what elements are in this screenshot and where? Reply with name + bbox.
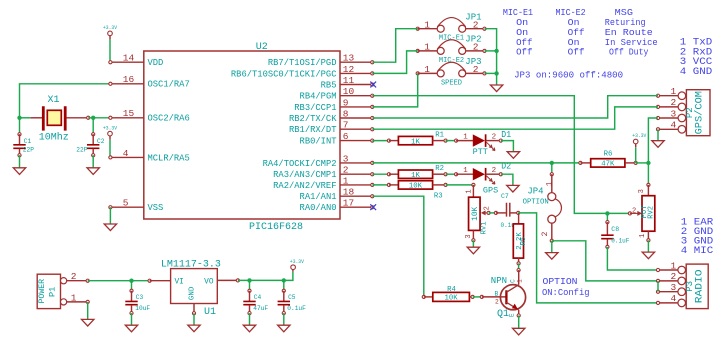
svg-text:RA1/AN1: RA1/AN1 [300, 192, 337, 202]
svg-text:E: E [508, 313, 515, 317]
svg-text:3: 3 [465, 234, 473, 238]
svg-text:1: 1 [670, 260, 676, 271]
svg-text:1K: 1K [411, 172, 420, 180]
svg-text:JP4: JP4 [527, 185, 543, 196]
svg-text:Off: Off [516, 48, 532, 58]
svg-text:9: 9 [343, 97, 349, 108]
svg-text:R6: R6 [604, 151, 613, 159]
svg-text:3: 3 [638, 189, 646, 193]
svg-text:R3: R3 [434, 192, 443, 200]
svg-text:RV1: RV1 [481, 221, 489, 235]
svg-text:B: B [495, 291, 499, 298]
svg-text:RB1/RX/DT: RB1/RX/DT [289, 125, 337, 135]
svg-text:4: 4 [123, 148, 129, 159]
svg-text:4 MIC: 4 MIC [681, 246, 713, 257]
svg-text:15: 15 [123, 108, 135, 119]
svg-text:Returing: Returing [605, 18, 646, 28]
svg-text:RB0/INT: RB0/INT [300, 137, 337, 147]
svg-text:1: 1 [639, 234, 647, 238]
svg-text:OPTION: OPTION [523, 198, 549, 206]
svg-text:MIC-E2: MIC-E2 [556, 8, 586, 18]
svg-text:2: 2 [495, 299, 499, 306]
svg-text:RB7/T1OSI/PGD: RB7/T1OSI/PGD [268, 58, 337, 68]
svg-text:RB2/TX/CK: RB2/TX/CK [289, 114, 337, 124]
svg-text:C7: C7 [501, 193, 509, 200]
svg-text:47K: 47K [601, 161, 615, 169]
svg-text:C8: C8 [611, 226, 619, 233]
svg-text:RB5: RB5 [321, 80, 337, 90]
svg-text:GPS/COM: GPS/COM [694, 91, 706, 134]
svg-text:4: 4 [670, 120, 676, 131]
svg-text:MIC-E1: MIC-E1 [439, 35, 464, 43]
svg-text:C5: C5 [288, 294, 296, 301]
svg-text:47uF: 47uF [253, 305, 268, 312]
svg-text:11: 11 [343, 75, 355, 86]
svg-text:1: 1 [670, 86, 676, 97]
svg-text:P2: P2 [685, 107, 695, 118]
svg-text:SPEED: SPEED [441, 79, 462, 87]
svg-text:2: 2 [484, 206, 492, 210]
svg-text:0.1uF: 0.1uF [287, 305, 306, 312]
svg-text:C: C [509, 279, 516, 283]
svg-text:Q1: Q1 [497, 309, 509, 320]
svg-text:OSC2/RA6: OSC2/RA6 [148, 114, 190, 124]
svg-text:MCLR/RA5: MCLR/RA5 [148, 153, 190, 163]
svg-text:4 GND: 4 GND [680, 67, 712, 78]
svg-text:1: 1 [517, 279, 524, 283]
svg-text:OPTION: OPTION [543, 276, 578, 287]
svg-text:P3: P3 [685, 281, 695, 292]
svg-text:2: 2 [670, 271, 676, 282]
svg-text:18: 18 [343, 187, 355, 198]
svg-text:JP3: JP3 [465, 57, 481, 67]
svg-text:RA2/AN2/VREF: RA2/AN2/VREF [273, 181, 336, 191]
svg-text:C4: C4 [254, 294, 262, 301]
svg-text:RB6/T10SC0/T1CKI/PGC: RB6/T10SC0/T1CKI/PGC [231, 69, 337, 79]
svg-text:MSG: MSG [615, 8, 633, 18]
svg-text:0.1uF: 0.1uF [611, 238, 629, 245]
svg-text:+3.3V: +3.3V [103, 24, 117, 31]
svg-text:RB3/CCP1: RB3/CCP1 [294, 103, 336, 113]
svg-text:On: On [568, 18, 580, 28]
svg-text:VSS: VSS [148, 203, 164, 213]
svg-text:C3: C3 [136, 294, 144, 301]
svg-text:R4: R4 [447, 286, 456, 294]
svg-text:R1: R1 [435, 131, 444, 139]
svg-text:X1: X1 [48, 95, 60, 106]
svg-text:ON:Config: ON:Config [542, 287, 590, 298]
svg-text:NPN: NPN [491, 276, 507, 286]
svg-text:RA3/AN3/CMP1: RA3/AN3/CMP1 [273, 170, 336, 180]
svg-text:VDD: VDD [148, 58, 164, 68]
svg-text:10K: 10K [445, 295, 459, 303]
svg-text:17: 17 [343, 198, 354, 209]
svg-text:2: 2 [71, 271, 77, 282]
svg-text:3: 3 [670, 282, 676, 293]
svg-text:3: 3 [670, 108, 676, 119]
svg-text:1: 1 [424, 19, 430, 30]
svg-text:VI: VI [175, 279, 184, 287]
svg-text:10K: 10K [472, 206, 480, 220]
svg-text:RADIO: RADIO [694, 269, 705, 303]
svg-text:PIC16F628: PIC16F628 [249, 222, 303, 233]
svg-text:1: 1 [343, 175, 349, 186]
svg-text:In Service: In Service [605, 38, 658, 48]
svg-text:JP2: JP2 [465, 35, 481, 45]
svg-text:5: 5 [123, 198, 129, 209]
svg-text:LM1117-3.3: LM1117-3.3 [161, 260, 221, 271]
svg-text:MIC-E1: MIC-E1 [503, 8, 533, 18]
svg-text:Off: Off [568, 48, 585, 58]
svg-text:POWER: POWER [38, 279, 47, 304]
svg-text:R5: R5 [520, 237, 528, 245]
svg-text:4: 4 [670, 293, 676, 304]
svg-text:+3.3V: +3.3V [632, 132, 646, 139]
svg-text:10Mhz: 10Mhz [39, 132, 69, 144]
svg-text:OSC1/RA7: OSC1/RA7 [148, 80, 190, 90]
svg-text:1: 1 [465, 189, 473, 193]
svg-text:RB4/PGM: RB4/PGM [300, 92, 337, 102]
svg-text:Off: Off [568, 28, 585, 38]
svg-text:22P: 22P [76, 146, 87, 153]
svg-text:GPS: GPS [483, 185, 498, 195]
svg-text:10uF: 10uF [135, 305, 150, 312]
svg-text:1: 1 [424, 42, 430, 53]
svg-text:Off: Off [516, 38, 532, 48]
svg-text:1: 1 [463, 167, 468, 175]
svg-text:16: 16 [123, 74, 135, 85]
svg-text:10K: 10K [409, 183, 423, 191]
svg-text:22P: 22P [23, 146, 34, 153]
svg-text:2: 2 [343, 165, 349, 176]
svg-text:U2: U2 [256, 42, 268, 53]
svg-text:1: 1 [545, 181, 554, 186]
svg-text:6: 6 [343, 131, 349, 142]
svg-text:1: 1 [71, 292, 77, 303]
svg-text:JP3 on:9600 off:4800: JP3 on:9600 off:4800 [514, 71, 623, 81]
svg-text:On: On [568, 38, 580, 48]
svg-text:7: 7 [343, 120, 349, 131]
svg-text:12: 12 [343, 64, 355, 75]
svg-text:1: 1 [424, 64, 430, 75]
svg-text:1: 1 [463, 134, 468, 142]
svg-text:3: 3 [343, 153, 349, 164]
svg-text:JP1: JP1 [465, 12, 481, 22]
svg-text:2: 2 [670, 97, 676, 108]
svg-text:C2: C2 [97, 138, 105, 145]
svg-text:RA4/TOCKI/CMP2: RA4/TOCKI/CMP2 [263, 159, 337, 169]
svg-text:+3.3V: +3.3V [103, 124, 117, 131]
svg-text:RA0/AN0: RA0/AN0 [300, 203, 337, 213]
svg-text:RV2: RV2 [648, 206, 656, 219]
svg-text:D1: D1 [501, 130, 511, 140]
svg-text:+3.3V: +3.3V [290, 258, 304, 265]
svg-text:13: 13 [343, 53, 355, 64]
svg-text:10: 10 [343, 86, 355, 97]
svg-text:14: 14 [123, 53, 135, 64]
svg-text:U1: U1 [204, 307, 216, 318]
svg-text:PTT: PTT [473, 147, 488, 157]
svg-text:GND: GND [189, 286, 197, 300]
svg-text:On: On [516, 28, 528, 38]
svg-text:2: 2 [632, 208, 636, 216]
svg-text:1K: 1K [411, 138, 420, 146]
svg-text:2: 2 [541, 231, 550, 236]
svg-text:On: On [516, 18, 528, 28]
svg-text:MIC-E2: MIC-E2 [439, 57, 464, 65]
svg-text:En Route: En Route [605, 28, 653, 38]
svg-text:8: 8 [343, 108, 349, 119]
svg-text:P1: P1 [48, 287, 58, 297]
svg-text:VO: VO [204, 279, 214, 287]
svg-text:C1: C1 [24, 138, 32, 145]
svg-text:R2: R2 [435, 165, 444, 173]
svg-text:Off Duty: Off Duty [609, 48, 649, 58]
